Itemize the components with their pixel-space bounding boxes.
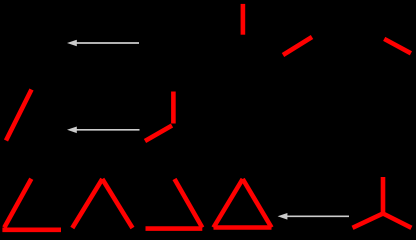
molecule 6 (bottom middle): diagonal + base bonds: [146, 179, 203, 229]
reaction arrow 3 (retrosynthesis row 3): [278, 213, 349, 220]
molecule 5 (bottom, lambda shape): two bonds meeting at apex: [72, 179, 132, 228]
molecule 7 (cyclopropane ring, fully highlighted triangle): left bond: [214, 179, 243, 228]
molecule 1: highlighted ring bond (up-right diagonal): [283, 37, 312, 55]
molecule 3: highlighted diagonal bond: [145, 126, 172, 142]
molecule 7: base bond: [214, 225, 272, 230]
reaction arrow 1 (retrosynthesis row 1): [67, 40, 139, 47]
molecule 1: highlighted bond (down-right diagonal): [384, 39, 411, 53]
molecule 7: right bond: [243, 179, 272, 228]
molecule 2 (row 2 product): highlighted diagonal bond: [6, 90, 32, 141]
molecule 4 (bottom left): diagonal + base bonds: [2, 179, 61, 230]
reaction arrow 2 (retrosynthesis row 2): [67, 127, 140, 134]
molecule 1: highlighted methyl bond (vertical): [241, 4, 246, 35]
molecule 8: right leg bond: [383, 214, 411, 228]
molecule 8 (bottom right, Y shape): vertical bond: [381, 177, 386, 214]
molecule 8: left leg bond: [353, 214, 384, 228]
molecule 3 (row 2 reactant): highlighted vertical bond: [171, 92, 176, 124]
